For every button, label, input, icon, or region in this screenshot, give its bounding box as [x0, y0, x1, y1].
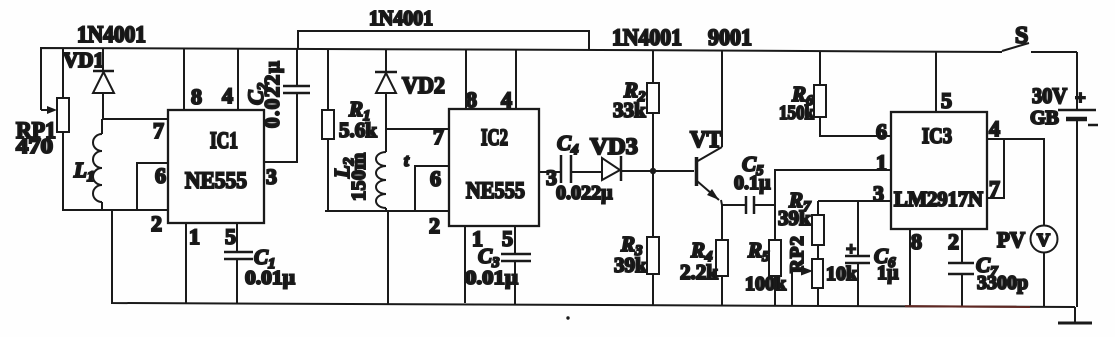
inductor L2: [376, 152, 386, 211]
switch S: [1002, 43, 1077, 52]
svg-text:VD3: VD3: [590, 134, 638, 159]
svg-text:7: 7: [433, 124, 444, 149]
resistor R6: [814, 51, 891, 136]
op-amp IC2 box: [449, 109, 539, 226]
svg-text:PV: PV: [997, 227, 1025, 252]
svg-text:1: 1: [876, 150, 887, 175]
pin 4 IC2: [515, 49, 517, 109]
svg-text:GB: GB: [1030, 107, 1059, 129]
wire bottom ground rail: [112, 210, 1075, 307]
svg-text:R5: R5: [747, 238, 770, 265]
pin 7 IC3: [987, 139, 1004, 198]
pin 4 IC1: [237, 49, 239, 110]
wire 1N4001 loop: [298, 31, 589, 50]
svg-text:39k: 39k: [614, 253, 647, 277]
capacitor C3: [501, 254, 531, 304]
wire pin3 stub: [818, 200, 891, 202]
svg-text:IC2: IC2: [481, 125, 508, 150]
pin 8 IC2: [465, 49, 467, 109]
svg-text:150k: 150k: [779, 102, 815, 124]
svg-text:5.6k: 5.6k: [339, 118, 377, 142]
pin 8 IC3: [909, 229, 911, 306]
pin 5 IC2: [514, 226, 516, 254]
svg-text:0.022µ: 0.022µ: [260, 60, 284, 128]
wire top rail: [41, 48, 1002, 110]
capacitor C4: [561, 155, 602, 183]
svg-text:RP2: RP2: [787, 235, 808, 273]
svg-text:33k: 33k: [613, 98, 646, 122]
resistor R3: [647, 171, 659, 305]
pin 2 IC3: [961, 229, 963, 263]
wire IC1 pin3 to C2: [264, 93, 297, 162]
svg-text:10k: 10k: [826, 263, 858, 285]
svg-text:30V: 30V: [1032, 83, 1067, 108]
wire rail tint: [905, 305, 1030, 308]
svg-text:6: 6: [155, 163, 166, 188]
capacitor C1: [224, 252, 253, 304]
svg-text:LM2917N: LM2917N: [894, 187, 983, 211]
svg-text:V: V: [1037, 230, 1050, 250]
diode VD2: [375, 49, 397, 152]
pin 1 IC1: [185, 223, 187, 303]
svg-text:150m: 150m: [348, 152, 370, 201]
svg-text:+: +: [1075, 88, 1086, 109]
capacitor C7: [948, 263, 974, 307]
svg-text:VD2: VD2: [402, 73, 445, 98]
svg-text:5: 5: [941, 88, 952, 113]
node dot A: [650, 168, 656, 174]
resistor R4: [716, 240, 728, 306]
wire IC1 pin7 stub: [102, 118, 168, 120]
pin 5 IC3: [935, 52, 937, 112]
svg-text:6: 6: [430, 166, 441, 191]
diode VD3: [602, 156, 694, 181]
speck: [566, 316, 569, 319]
wire IC2 pin3 stub: [539, 171, 561, 173]
svg-text:1N4001: 1N4001: [612, 25, 682, 50]
svg-text:1N4001: 1N4001: [77, 22, 146, 47]
svg-text:S: S: [1015, 23, 1028, 49]
wire emitter to C5: [722, 204, 746, 206]
potentiometer RP1: [41, 49, 69, 210]
resistor R2: [647, 50, 659, 171]
svg-text:+: +: [846, 239, 856, 259]
svg-text:2: 2: [151, 211, 162, 236]
svg-text:NE555: NE555: [466, 178, 525, 203]
resistor R7: [812, 201, 824, 245]
capacitor C6 electrolytic: [845, 201, 870, 306]
capacitor C5: [746, 196, 775, 214]
svg-text:9001: 9001: [708, 25, 752, 50]
svg-text:470: 470: [16, 134, 53, 158]
svg-text:7: 7: [989, 176, 1000, 201]
svg-text:1µ: 1µ: [877, 262, 899, 284]
diode VD1: [93, 49, 114, 119]
svg-text:39k: 39k: [778, 206, 811, 230]
svg-text:IC1: IC1: [210, 128, 238, 153]
svg-text:6: 6: [876, 119, 887, 144]
svg-text:2.2k: 2.2k: [680, 260, 718, 284]
op-amp IC3 box: [891, 112, 987, 229]
svg-text:VT: VT: [690, 127, 722, 152]
svg-text:C4: C4: [557, 131, 579, 158]
op-amp IC1 box: [168, 110, 264, 223]
svg-text:t: t: [404, 151, 410, 170]
pin 4 IC3: [987, 139, 1044, 226]
battery GB: [1058, 52, 1096, 307]
svg-text:7: 7: [153, 118, 164, 143]
potentiometer RP2: [792, 245, 823, 306]
resistor R1: [322, 49, 334, 211]
transistor VT: [696, 50, 722, 240]
svg-text:100k: 100k: [745, 273, 787, 295]
svg-text:5: 5: [502, 226, 513, 251]
svg-text:2: 2: [948, 229, 959, 254]
inductor L1: [93, 119, 102, 210]
svg-text:5: 5: [225, 224, 236, 249]
svg-text:NE555: NE555: [185, 168, 247, 193]
capacitor C2: [283, 49, 310, 93]
pin 8 IC1: [183, 49, 185, 110]
svg-text:L1: L1: [73, 158, 94, 185]
battery negative tail: [1058, 307, 1092, 323]
wire mid drop to rail: [387, 211, 389, 304]
svg-text:0.022µ: 0.022µ: [556, 182, 613, 204]
pin 1 IC2: [464, 226, 466, 303]
svg-text:4: 4: [501, 87, 512, 112]
pin 5 IC1: [236, 223, 238, 252]
svg-text:8: 8: [911, 229, 922, 254]
svg-text:IC3: IC3: [922, 123, 952, 148]
wire IC2 pin6 stub: [415, 166, 449, 211]
svg-text:8: 8: [466, 87, 477, 112]
svg-text:3: 3: [873, 181, 884, 206]
svg-text:8: 8: [191, 84, 202, 109]
wire IC2 pin7 stub: [386, 128, 449, 130]
svg-text:2: 2: [429, 213, 440, 238]
svg-text:4: 4: [222, 83, 233, 108]
wire IC1 pin6 stub: [137, 163, 168, 210]
svg-text:4: 4: [989, 116, 1000, 141]
svg-text:0.01µ: 0.01µ: [245, 267, 296, 289]
svg-text:VD1: VD1: [63, 48, 104, 72]
wire mid bottom row: [325, 210, 449, 212]
svg-text:0.1µ: 0.1µ: [734, 172, 771, 194]
svg-text:3: 3: [266, 164, 277, 189]
svg-text:1N4001: 1N4001: [369, 6, 433, 30]
wire node row left: [62, 209, 168, 211]
svg-text:0.01µ: 0.01µ: [465, 267, 519, 289]
wire C5 node up to pin1: [775, 170, 891, 240]
voltmeter PV: [1031, 226, 1058, 308]
svg-text:3300p: 3300p: [977, 272, 1028, 294]
svg-text:1: 1: [189, 224, 200, 249]
resistor R5: [769, 240, 781, 306]
